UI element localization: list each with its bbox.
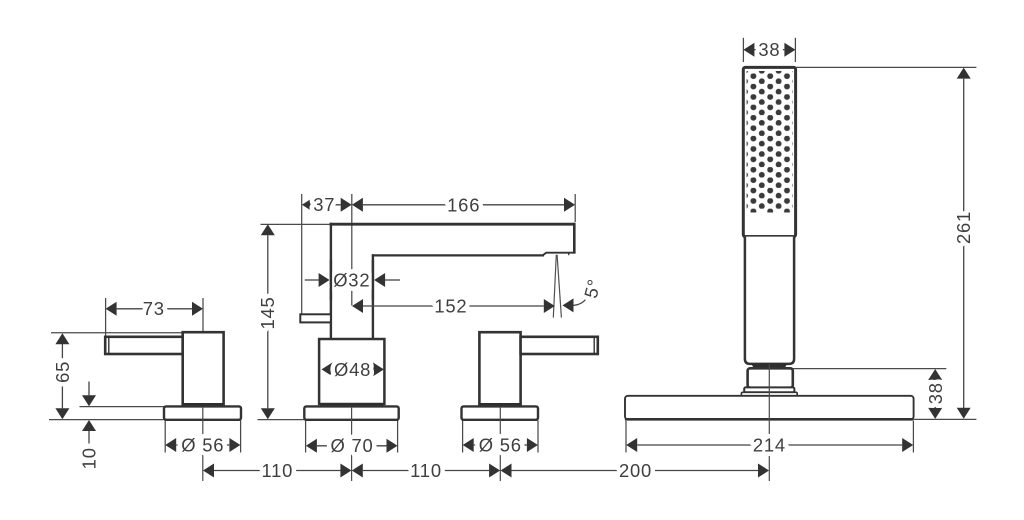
ext 214 xyxy=(625,421,627,453)
arrows 110-2 xyxy=(352,464,363,478)
arrows 38-bottom xyxy=(928,369,942,380)
svg-text:73: 73 xyxy=(143,298,165,319)
dim Ø48 line xyxy=(330,368,375,370)
arrows 65 xyxy=(55,333,69,344)
arrows Ø56-2 xyxy=(463,438,474,452)
svg-text:Ø 56: Ø 56 xyxy=(181,434,224,455)
ext Ø70 xyxy=(305,421,307,453)
deck line mid xyxy=(258,419,304,421)
arrows 73 xyxy=(106,302,117,316)
arrows 214 xyxy=(626,438,637,452)
shower base plate bottom edge xyxy=(625,418,914,421)
svg-text:Ø32: Ø32 xyxy=(333,269,370,290)
svg-text:214: 214 xyxy=(753,434,786,455)
svg-text:Ø 56: Ø 56 xyxy=(479,434,522,455)
hand shower head xyxy=(743,67,795,236)
dim Ø56-1 line xyxy=(176,444,229,446)
svg-text:38: 38 xyxy=(758,39,780,60)
deck line right xyxy=(914,418,976,420)
arrows 37 xyxy=(302,198,313,212)
arrows 10 xyxy=(82,395,96,406)
right handle lever xyxy=(521,337,598,354)
ext 38-bottom top xyxy=(791,368,947,370)
svg-text:37: 37 xyxy=(313,194,335,215)
hand shower flange xyxy=(744,387,794,392)
arrows 261 xyxy=(957,68,971,79)
dim Ø70 line xyxy=(317,445,387,447)
right handle base shadow band xyxy=(480,403,520,406)
right handle body xyxy=(479,332,520,405)
arrows Ø48 xyxy=(322,362,333,376)
spout base plate xyxy=(304,406,398,419)
dim 110-2 line xyxy=(363,470,489,472)
arrows 166 xyxy=(352,198,363,212)
arrows 200 xyxy=(501,464,512,478)
arrows Ø32 xyxy=(319,273,330,287)
dim 200 line xyxy=(512,470,759,472)
dim 38-bottom line xyxy=(934,380,936,408)
arrows Ø56-1 xyxy=(165,438,176,452)
left handle body xyxy=(183,332,224,405)
spout column right edge redraw xyxy=(372,260,374,300)
dim 73 line xyxy=(117,308,192,310)
centreline spout xyxy=(351,407,353,481)
spout column right edge xyxy=(372,254,374,339)
ext Ø56-1 xyxy=(164,421,166,453)
dim Ø56-2 line xyxy=(474,444,527,446)
centreline shower xyxy=(768,364,770,481)
arrows Ø70 xyxy=(306,439,317,453)
svg-text:65: 65 xyxy=(52,361,73,383)
hand shower nut xyxy=(751,363,788,368)
hand shower handle xyxy=(745,237,794,364)
svg-text:Ø48: Ø48 xyxy=(334,359,371,380)
svg-text:152: 152 xyxy=(434,295,467,316)
svg-text:110: 110 xyxy=(410,460,442,481)
centreline handle1 xyxy=(202,407,204,481)
dim 37 line xyxy=(313,204,341,206)
spout lower body xyxy=(319,339,384,404)
ext 37/166 centre xyxy=(351,194,353,306)
arrow angle-5 xyxy=(563,298,574,312)
spout arm top xyxy=(330,223,576,226)
svg-text:10: 10 xyxy=(78,447,99,469)
dim 38-top line xyxy=(755,49,785,51)
spray line right xyxy=(557,255,561,318)
arrows 38-top xyxy=(743,43,754,57)
dim Ø32 tails xyxy=(305,279,319,281)
spout column left edge redraw xyxy=(330,260,332,300)
spout mouth step xyxy=(543,253,576,256)
ext 261 top xyxy=(796,66,977,68)
spout tip right edge xyxy=(573,223,576,254)
deck line left xyxy=(49,419,164,421)
hand shower spray face dots xyxy=(747,71,793,213)
spout diverter protrusion xyxy=(300,314,331,322)
spray line left xyxy=(553,255,556,318)
arrows 110-1 xyxy=(203,464,214,478)
spout column left edge xyxy=(330,223,332,340)
left handle base shadow band xyxy=(184,403,224,406)
angle leader xyxy=(574,299,587,306)
centreline handle2 xyxy=(499,407,501,481)
ext 38-top xyxy=(742,38,744,62)
left handle lever end cap xyxy=(108,337,110,354)
ext 145 top xyxy=(261,223,331,225)
right handle lever end cap xyxy=(593,337,595,354)
ext 73 right xyxy=(202,298,204,332)
arrows 152 xyxy=(352,299,363,313)
spout base shadow band xyxy=(320,403,384,406)
dim 214 line xyxy=(637,444,902,446)
right handle base plate xyxy=(462,406,539,419)
svg-text:145: 145 xyxy=(257,296,278,329)
hand shower connector xyxy=(748,368,793,388)
dim 145 line xyxy=(267,235,269,408)
spout mouth tick xyxy=(568,253,570,256)
hand shower flange skirt xyxy=(741,392,797,396)
dim 110-1 line xyxy=(214,470,341,472)
dim 65 line xyxy=(61,344,63,408)
svg-text:166: 166 xyxy=(447,195,480,216)
shower base plate xyxy=(625,396,914,420)
ext 166 right xyxy=(574,194,576,222)
ext line plate-top left xyxy=(80,406,165,408)
ext 37 left xyxy=(301,194,303,315)
ext line handle1 top xyxy=(51,332,182,334)
dim 10 tails xyxy=(88,382,90,396)
left handle lever xyxy=(105,337,183,354)
mask Ø70 xyxy=(330,439,375,454)
hand shower head/handle divider xyxy=(743,235,795,238)
dim 261 line xyxy=(963,79,965,408)
mask Ø56-2 xyxy=(479,438,523,453)
svg-text:38: 38 xyxy=(925,382,946,404)
ext 73 left xyxy=(105,298,107,337)
dim 152 line xyxy=(363,305,544,307)
dim 166 line xyxy=(363,204,564,206)
mask Ø56-1 xyxy=(181,438,225,453)
spout arm bottom xyxy=(372,254,544,256)
left handle base plate xyxy=(164,406,241,419)
svg-text:200: 200 xyxy=(619,460,652,481)
svg-text:Ø 70: Ø 70 xyxy=(330,435,373,456)
svg-text:110: 110 xyxy=(261,460,293,481)
arrows 145 xyxy=(261,224,275,235)
ext Ø56-2 xyxy=(462,421,464,453)
svg-text:261: 261 xyxy=(953,211,974,244)
